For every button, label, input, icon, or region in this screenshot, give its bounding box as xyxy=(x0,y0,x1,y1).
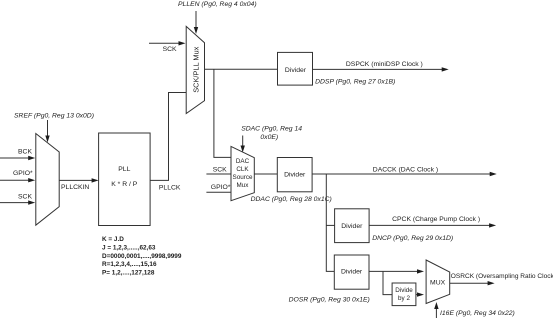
block PLL xyxy=(99,133,151,226)
svg-text:SREF (Pg0, Reg 13 0x0D): SREF (Pg0, Reg 13 0x0D) xyxy=(14,113,94,120)
svg-text:0x0E): 0x0E) xyxy=(260,134,278,141)
mux OSRCK xyxy=(426,260,450,304)
divider DDSP xyxy=(278,52,313,85)
wire SCK to DAC mux xyxy=(206,173,231,175)
svg-text:SCK: SCK xyxy=(18,193,32,200)
svg-text:PLL: PLL xyxy=(118,166,130,173)
svg-text:K = J.D: K = J.D xyxy=(102,236,124,243)
svg-text:D=0000,0001,....,9998,9999: D=0000,0001,....,9998,9999 xyxy=(102,253,182,260)
wire CPCK output xyxy=(369,223,496,227)
wire OSRCK output xyxy=(450,281,495,285)
wire stub to NCP divider xyxy=(326,224,334,226)
wire SCK/PLL mux output to DSP divider xyxy=(205,68,278,70)
wire PLLCKIN xyxy=(59,178,98,182)
svg-text:GPIO*: GPIO* xyxy=(211,184,231,191)
svg-text:Divide: Divide xyxy=(395,287,413,294)
svg-text:DACCK (DAC Clock ): DACCK (DAC Clock ) xyxy=(373,167,438,174)
svg-text:Mux: Mux xyxy=(237,182,250,189)
wire GPIO to DAC mux xyxy=(206,191,231,193)
wire DSPCK output xyxy=(313,67,449,71)
svg-text:P= 1,2,....,127,128: P= 1,2,....,127,128 xyxy=(102,270,155,277)
svg-text:PLLCK: PLLCK xyxy=(159,185,181,192)
svg-text:by 2: by 2 xyxy=(398,295,410,302)
svg-text:DDAC (Pg0, Reg 28 0x1C): DDAC (Pg0, Reg 28 0x1C) xyxy=(251,196,332,203)
wire PLLCK feedback to SCK/PLL mux xyxy=(150,93,186,181)
divider DOSR xyxy=(334,255,369,289)
svg-text:Divider: Divider xyxy=(285,67,307,74)
svg-text:I16E (Pg0, Reg 34 0x22): I16E (Pg0, Reg 34 0x22) xyxy=(440,310,515,317)
svg-text:SCK: SCK xyxy=(163,46,177,53)
wire SCK input xyxy=(0,200,35,204)
svg-text:Divider: Divider xyxy=(341,223,363,230)
mux SCK/PLL xyxy=(186,26,204,113)
svg-text:MUX: MUX xyxy=(430,279,446,286)
svg-text:CPCK (Charge Pump Clock ): CPCK (Charge Pump Clock ) xyxy=(392,216,480,223)
wire I16E select arrow xyxy=(434,302,438,318)
svg-text:GPIO*: GPIO* xyxy=(13,170,33,177)
svg-text:K * R / P: K * R / P xyxy=(111,181,138,188)
mux DAC CLK source xyxy=(231,146,254,200)
svg-text:BCK: BCK xyxy=(18,149,32,156)
divider DDAC xyxy=(277,158,312,192)
svg-text:Source: Source xyxy=(233,174,253,181)
wire branch down to DAC CLK source mux xyxy=(214,69,231,157)
svg-text:Divider: Divider xyxy=(341,268,363,275)
wire SDAC select arrow xyxy=(241,136,245,153)
svg-text:SCK/PLL Mux: SCK/PLL Mux xyxy=(191,46,200,92)
svg-text:SDAC (Pg0, Reg 14: SDAC (Pg0, Reg 14 xyxy=(241,126,302,133)
svg-text:DAC: DAC xyxy=(236,158,250,165)
svg-text:DSPCK (miniDSP Clock ): DSPCK (miniDSP Clock ) xyxy=(346,61,423,68)
svg-text:DOSR (Pg0, Reg 30 0x1E): DOSR (Pg0, Reg 30 0x1E) xyxy=(289,297,370,304)
label PLL coefficient equations xyxy=(102,236,182,277)
svg-text:PLLCKIN: PLLCKIN xyxy=(61,184,89,191)
wire branch down from DACCK line xyxy=(326,174,334,271)
wire divide-by-2 to MUX input xyxy=(416,292,424,296)
svg-text:Divider: Divider xyxy=(284,171,306,178)
wire DACCK output xyxy=(312,172,497,176)
wire BCK input xyxy=(0,156,35,160)
svg-text:DNCP (Pg0, Reg 29 0x1D): DNCP (Pg0, Reg 29 0x1D) xyxy=(372,235,453,242)
svg-text:CLK: CLK xyxy=(236,166,249,173)
svg-text:SCK: SCK xyxy=(213,167,227,174)
wire SCK to SCK/PLL mux xyxy=(149,41,186,45)
wire branch to divide-by-2 xyxy=(383,271,392,294)
mux PLL clock source xyxy=(36,134,59,226)
wire SREF select arrow xyxy=(45,120,49,143)
svg-text:J = 1,2,3,.....,62,63: J = 1,2,3,.....,62,63 xyxy=(102,244,156,251)
wire OSR divider output to MUX input xyxy=(369,269,424,273)
svg-text:PLLEN (Pg0, Reg 4 0x04): PLLEN (Pg0, Reg 4 0x04) xyxy=(178,1,257,8)
divider DNCP xyxy=(335,209,370,243)
block divide by 2 xyxy=(392,283,416,306)
svg-text:R=1,2,3,4,....,15,16: R=1,2,3,4,....,15,16 xyxy=(102,261,157,268)
svg-text:DDSP (Pg0, Reg 27 0x1B): DDSP (Pg0, Reg 27 0x1B) xyxy=(315,79,395,86)
wire DAC mux to divider xyxy=(254,173,277,175)
svg-text:OSRCK (Oversampling Ratio Cloc: OSRCK (Oversampling Ratio Clock ) xyxy=(451,273,553,280)
wire PLLEN select arrow xyxy=(194,11,198,34)
wire GPIO input xyxy=(0,178,35,182)
label SDAC register xyxy=(241,126,302,142)
